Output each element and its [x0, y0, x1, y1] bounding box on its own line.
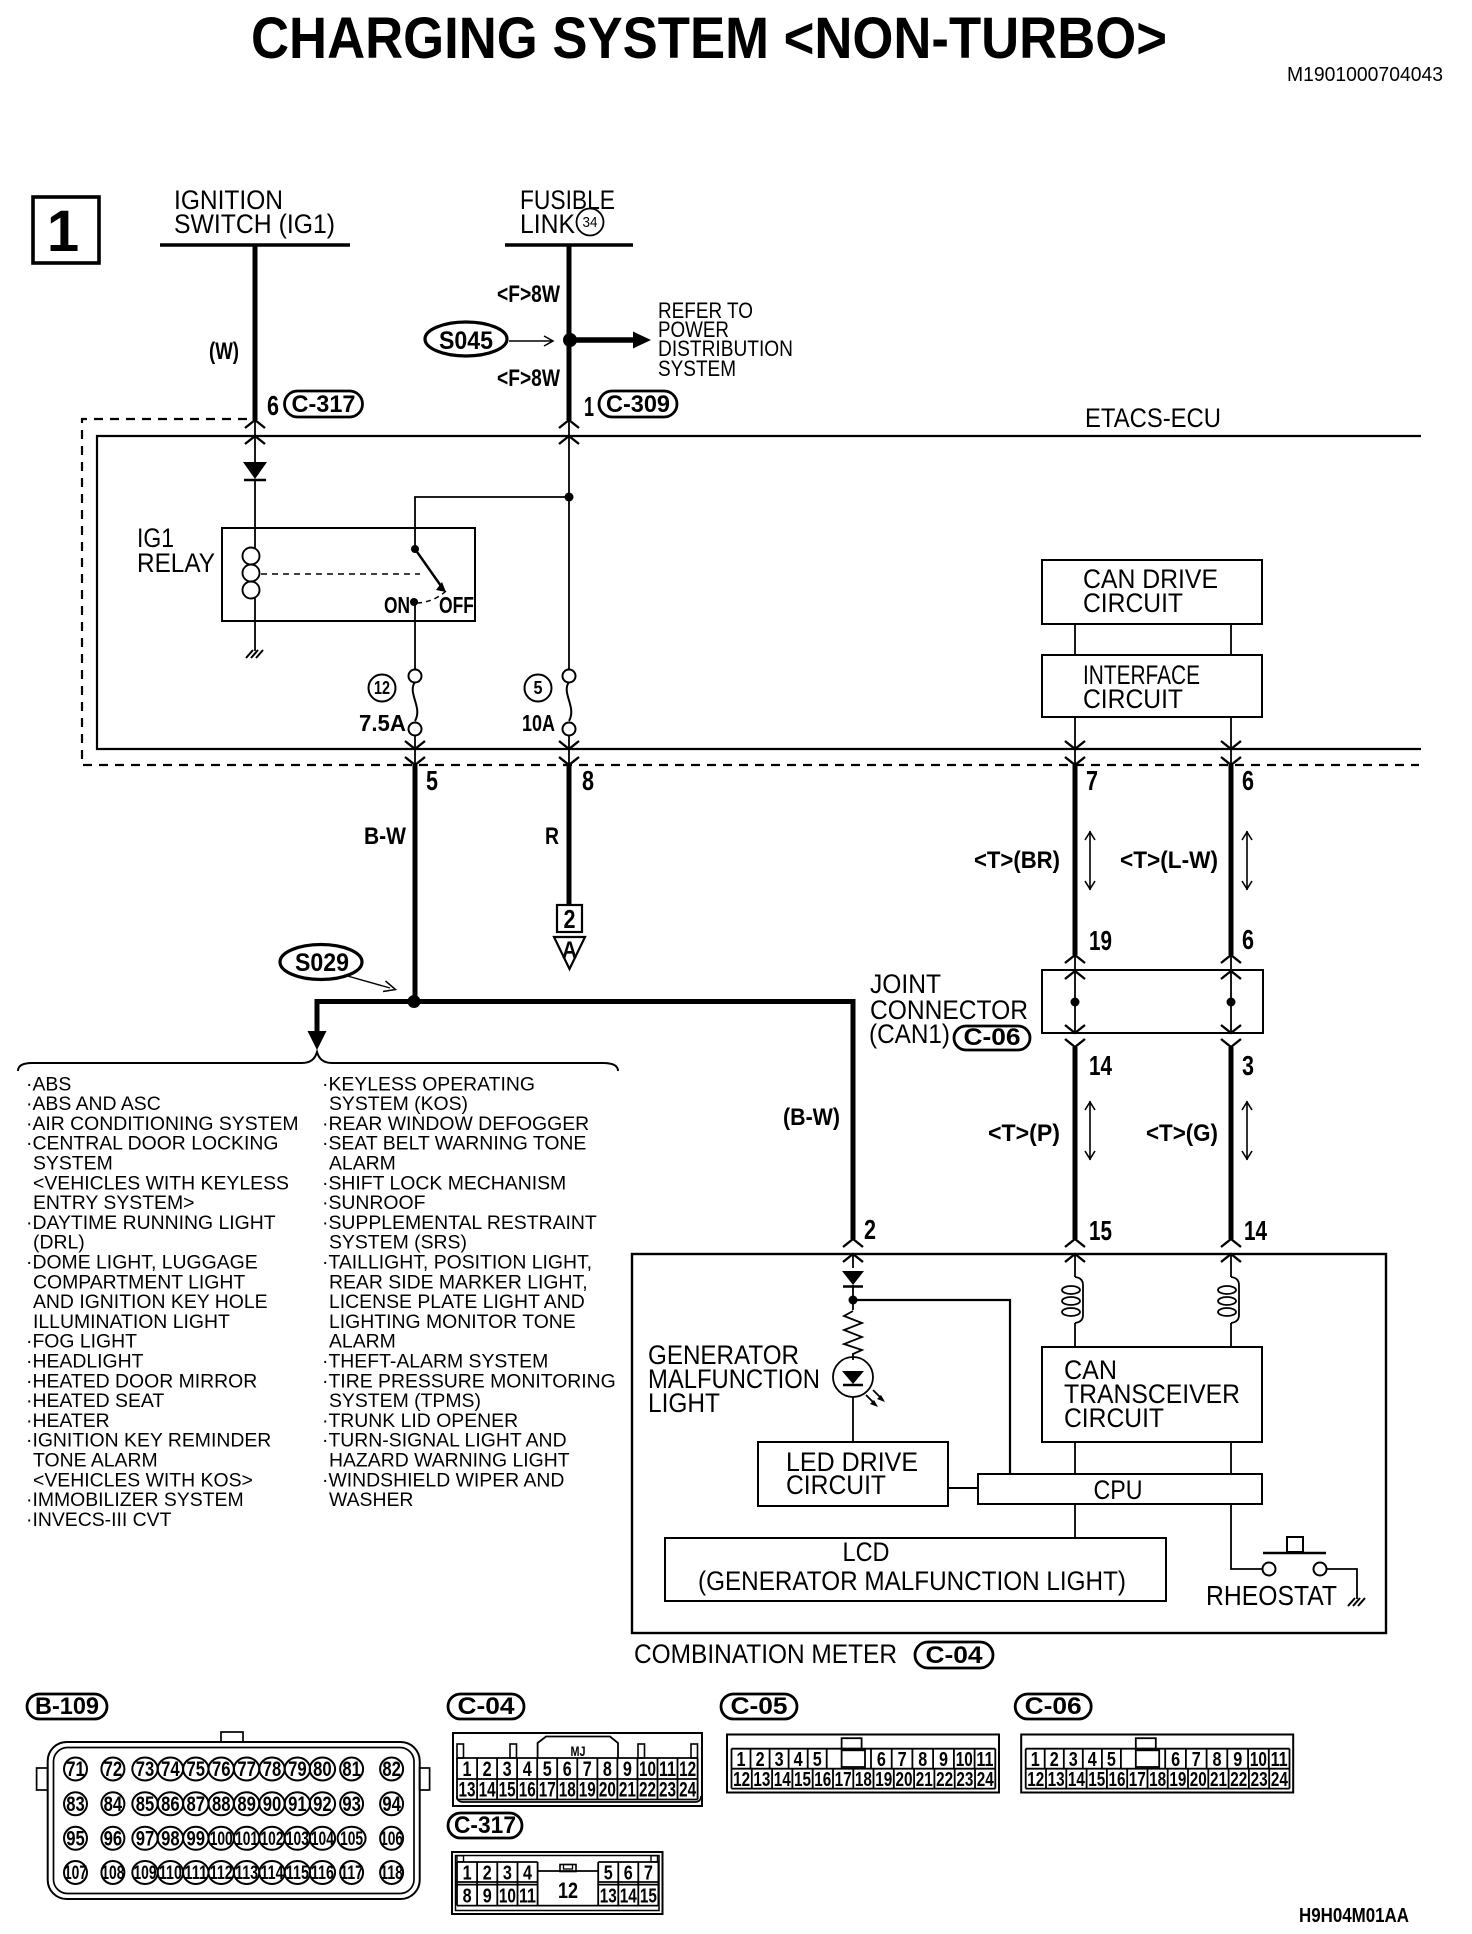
connector pill B-109	[27, 1694, 107, 1719]
relay coil L1	[243, 548, 260, 565]
svg-text:93: 93	[342, 1793, 361, 1816]
connector pill C-04 bottom	[448, 1694, 524, 1719]
svg-text:C-04: C-04	[458, 1693, 516, 1720]
B-109 pin 107	[64, 1861, 87, 1884]
svg-text:113: 113	[235, 1863, 258, 1884]
twisted pair arrow LW	[1242, 831, 1252, 890]
svg-text:92: 92	[313, 1793, 332, 1816]
connector chevrons C-309 pin 1 entry	[559, 420, 579, 428]
junction node S029	[408, 995, 421, 1008]
svg-text:8: 8	[918, 1749, 927, 1771]
wire diode to relay coil	[254, 480, 256, 548]
svg-text:91: 91	[288, 1793, 307, 1816]
B-109 pin 77	[234, 1758, 259, 1781]
splice S029	[280, 945, 362, 980]
IG1 relay box	[222, 528, 475, 621]
svg-text:23: 23	[956, 1769, 973, 1791]
svg-text:15: 15	[499, 1779, 516, 1802]
svg-text:86: 86	[161, 1793, 180, 1816]
B-109 pin 109	[132, 1861, 157, 1884]
svg-text:SYSTEM: SYSTEM	[33, 1153, 113, 1175]
wire T LW pin 6 to joint connector 6	[1229, 765, 1234, 955]
wire through joint connector right	[1230, 955, 1232, 1033]
rheostat switch	[1287, 1537, 1303, 1552]
twisted pair arrow BR	[1085, 831, 1095, 890]
fuse 5 (10A)	[568, 420, 570, 670]
B-109 pin 116	[310, 1861, 335, 1884]
connector pill C-317 bottom	[448, 1813, 522, 1838]
svg-text:ALARM: ALARM	[329, 1153, 396, 1175]
connector pill C-05 bottom	[721, 1694, 797, 1719]
svg-text:80: 80	[313, 1758, 332, 1781]
svg-text:S045: S045	[439, 327, 493, 355]
wire CPU to rheostat	[1231, 1504, 1262, 1569]
svg-text:2: 2	[564, 904, 576, 934]
svg-text:22: 22	[1230, 1769, 1247, 1791]
ground rheostat	[1348, 1598, 1365, 1606]
svg-text:114: 114	[261, 1863, 284, 1884]
svg-text:85: 85	[136, 1793, 155, 1816]
svg-text:(GENERATOR MALFUNCTION LIGHT): (GENERATOR MALFUNCTION LIGHT)	[698, 1566, 1126, 1596]
B-109 pin 105	[338, 1827, 366, 1850]
svg-text:<VEHICLES WITH KEYLESS: <VEHICLES WITH KEYLESS	[33, 1172, 289, 1194]
B-109 pin 117	[340, 1861, 363, 1884]
svg-text:<F>8W: <F>8W	[497, 281, 560, 308]
svg-text:2: 2	[756, 1749, 765, 1771]
svg-text:73: 73	[136, 1758, 155, 1781]
svg-text:17: 17	[539, 1779, 556, 1802]
svg-text:CIRCUIT: CIRCUIT	[1064, 1403, 1164, 1433]
svg-text:18: 18	[559, 1779, 576, 1802]
CAN transceiver circuit box	[1042, 1347, 1262, 1442]
svg-text:·TRUNK LID OPENER: ·TRUNK LID OPENER	[322, 1410, 518, 1432]
B-109 pin 87	[183, 1792, 208, 1815]
svg-text:WASHER: WASHER	[329, 1489, 413, 1511]
svg-text:COMPARTMENT LIGHT: COMPARTMENT LIGHT	[33, 1271, 245, 1293]
svg-text:8: 8	[463, 1886, 472, 1908]
svg-text:·HEADLIGHT: ·HEADLIGHT	[26, 1351, 144, 1373]
svg-text:22: 22	[639, 1779, 656, 1802]
svg-text:COMBINATION METER: COMBINATION METER	[634, 1639, 897, 1669]
arrow to power distribution system	[569, 337, 634, 343]
svg-text:100: 100	[210, 1829, 233, 1850]
brace over system list	[18, 1052, 618, 1071]
svg-text:CIRCUIT: CIRCUIT	[1083, 588, 1183, 618]
svg-text:1: 1	[1031, 1749, 1040, 1771]
svg-text:5: 5	[604, 1863, 613, 1885]
connector pill C-317	[285, 391, 363, 417]
svg-text:HAZARD WARNING LIGHT: HAZARD WARNING LIGHT	[329, 1450, 570, 1472]
svg-text:MJ: MJ	[571, 1743, 586, 1759]
svg-text:CHARGING SYSTEM <NON-TURBO>: CHARGING SYSTEM <NON-TURBO>	[251, 6, 1167, 71]
svg-text:·SUNROOF: ·SUNROOF	[322, 1192, 426, 1214]
B-109 pin 99	[183, 1827, 208, 1850]
chevrons meter pin 15 entry	[1065, 1239, 1085, 1247]
svg-text:11: 11	[976, 1749, 993, 1771]
B-109 pin 92	[310, 1792, 335, 1815]
svg-text:88: 88	[212, 1793, 231, 1816]
svg-text:22: 22	[936, 1769, 953, 1791]
B-109 pin 102	[259, 1827, 284, 1850]
svg-text:6: 6	[624, 1863, 633, 1885]
svg-text:15: 15	[1088, 1769, 1105, 1791]
svg-text:5: 5	[534, 678, 543, 698]
svg-text:TONE ALARM: TONE ALARM	[33, 1450, 158, 1472]
svg-text:CIRCUIT: CIRCUIT	[1083, 684, 1183, 714]
relay switch arm	[415, 549, 441, 586]
connector pill C-06 label	[954, 1026, 1030, 1050]
svg-text:19: 19	[579, 1779, 596, 1802]
svg-text:24: 24	[1271, 1769, 1289, 1791]
svg-text:(W): (W)	[209, 338, 239, 365]
svg-text:107: 107	[64, 1863, 87, 1884]
svg-text:74: 74	[161, 1758, 180, 1781]
B-109 pin 98	[158, 1827, 183, 1850]
svg-text:·ABS AND ASC: ·ABS AND ASC	[26, 1093, 161, 1115]
svg-text:5: 5	[1107, 1749, 1116, 1771]
B-109 pin 83	[64, 1792, 87, 1815]
svg-text:7: 7	[1192, 1749, 1201, 1771]
svg-text:<T>(L-W): <T>(L-W)	[1120, 847, 1218, 874]
svg-text:·HEATED DOOR MIRROR: ·HEATED DOOR MIRROR	[26, 1370, 257, 1392]
wire CAN transceiver to CPU right	[1230, 1442, 1232, 1474]
svg-text:·THEFT-ALARM SYSTEM: ·THEFT-ALARM SYSTEM	[322, 1351, 548, 1373]
svg-text:19: 19	[875, 1769, 892, 1791]
svg-text:H9H04M01AA: H9H04M01AA	[1299, 1905, 1409, 1927]
svg-text:72: 72	[104, 1758, 123, 1781]
svg-text:116: 116	[311, 1863, 334, 1884]
LED generator malfunction light	[833, 1357, 873, 1397]
chevrons meter pin 14 entry	[1221, 1239, 1241, 1247]
svg-text:C-04: C-04	[926, 1642, 984, 1669]
B-109 pin 81	[340, 1758, 363, 1781]
svg-text:C-317: C-317	[292, 391, 356, 418]
connector C-317 body	[452, 1852, 663, 1914]
svg-text:101: 101	[235, 1829, 258, 1850]
svg-text:OFF: OFF	[439, 592, 474, 618]
B-109 pin 76	[209, 1758, 234, 1781]
svg-text:C-06: C-06	[964, 1024, 1021, 1051]
chevrons joint connector pin 19 entry	[1065, 955, 1085, 963]
svg-text:5: 5	[426, 765, 438, 796]
svg-text:·INVECS-III CVT: ·INVECS-III CVT	[26, 1509, 172, 1531]
svg-text:95: 95	[66, 1827, 85, 1850]
circled fuse number 12	[369, 675, 396, 702]
CPU box	[978, 1474, 1262, 1504]
B-109 pin 79	[285, 1758, 310, 1781]
svg-text:105: 105	[340, 1829, 363, 1850]
svg-text:103: 103	[286, 1829, 309, 1850]
wire T BR pin 7 to joint connector 19	[1073, 765, 1078, 955]
wire entry to diode	[254, 420, 256, 462]
svg-text:SYSTEM (KOS): SYSTEM (KOS)	[329, 1093, 468, 1115]
svg-text:S029: S029	[295, 949, 349, 977]
chevrons ETACS pin 7 exit	[1065, 741, 1085, 749]
B-109 pin 101	[234, 1827, 259, 1850]
B-109 pin 90	[259, 1792, 284, 1815]
svg-text:·KEYLESS OPERATING: ·KEYLESS OPERATING	[322, 1073, 535, 1095]
svg-text:SYSTEM: SYSTEM	[658, 356, 736, 381]
B-109 pin 111	[183, 1861, 208, 1884]
svg-text:21: 21	[619, 1779, 636, 1802]
svg-text:17: 17	[835, 1769, 852, 1791]
B-109 pin 91	[285, 1792, 310, 1815]
svg-text:10: 10	[956, 1749, 973, 1771]
svg-text:83: 83	[66, 1793, 85, 1816]
svg-text:23: 23	[1251, 1769, 1268, 1791]
svg-text:79: 79	[288, 1758, 307, 1781]
svg-text:10: 10	[1250, 1749, 1267, 1771]
svg-text:<F>8W: <F>8W	[497, 365, 560, 392]
svg-text:76: 76	[212, 1758, 231, 1781]
chevrons ETACS pin 5 exit	[405, 741, 425, 749]
chevrons ETACS pin 6 exit	[1221, 741, 1241, 749]
svg-text:97: 97	[136, 1827, 155, 1850]
chevrons meter pin 2 entry	[843, 1239, 863, 1247]
svg-text:(B-W): (B-W)	[783, 1104, 840, 1131]
svg-text:<T>(BR): <T>(BR)	[974, 847, 1060, 874]
B-109 pin 73	[132, 1758, 157, 1781]
wire fuse 12 to pin 5	[414, 735, 416, 765]
svg-text:·ABS: ·ABS	[26, 1073, 71, 1095]
wire relay feed from fusible link	[415, 497, 569, 548]
wire fuse 5 to pin 8	[568, 735, 570, 765]
system list column 1	[26, 1073, 299, 1531]
svg-text:·DAYTIME RUNNING LIGHT: ·DAYTIME RUNNING LIGHT	[26, 1212, 276, 1234]
svg-text:REAR SIDE MARKER LIGHT,: REAR SIDE MARKER LIGHT,	[329, 1271, 588, 1293]
wire CPU to LCD	[1074, 1504, 1076, 1538]
joint connector (CAN1) box	[1042, 970, 1263, 1033]
svg-text:3: 3	[1069, 1749, 1078, 1771]
svg-text:8: 8	[1213, 1749, 1222, 1771]
off-page connector box 2	[557, 905, 582, 932]
svg-text:·SHIFT LOCK MECHANISM: ·SHIFT LOCK MECHANISM	[322, 1172, 566, 1194]
connector pill C-309	[599, 391, 677, 417]
svg-text:RELAY: RELAY	[137, 548, 215, 578]
wire T P joint to meter 15	[1073, 1047, 1078, 1239]
B-109 pin 103	[285, 1827, 310, 1850]
B-109 pin 110	[158, 1861, 183, 1884]
svg-text:110: 110	[159, 1863, 182, 1884]
wire CAN transceiver to CPU left	[1074, 1442, 1076, 1474]
B-109 pin 97	[132, 1827, 157, 1850]
svg-text:SWITCH (IG1): SWITCH (IG1)	[174, 209, 335, 239]
arrow S029 to junction	[344, 975, 390, 988]
svg-text:6: 6	[877, 1749, 886, 1771]
svg-text:·SUPPLEMENTAL RESTRAINT: ·SUPPLEMENTAL RESTRAINT	[322, 1212, 597, 1234]
wire S029 horizontal run	[317, 999, 853, 1004]
svg-text:14: 14	[479, 1779, 496, 1802]
connector pill C-04 label	[915, 1642, 993, 1668]
junction node on fusible wire	[565, 493, 574, 502]
svg-text:3: 3	[1242, 1050, 1254, 1081]
arrow S045 to junction	[509, 340, 552, 342]
svg-text:7: 7	[898, 1749, 907, 1771]
connector chevrons C-317 pin 6 entry	[245, 420, 265, 428]
svg-text:11: 11	[519, 1886, 536, 1908]
chevrons ETACS pin 8 exit	[559, 741, 579, 749]
svg-text:B-W: B-W	[364, 823, 406, 850]
svg-text:4: 4	[1088, 1749, 1098, 1771]
svg-text:1: 1	[463, 1863, 472, 1885]
svg-text:6: 6	[1171, 1749, 1180, 1771]
svg-text:94: 94	[382, 1793, 401, 1816]
wire fusible link to C-309 pin 1	[567, 245, 572, 420]
svg-text:71: 71	[66, 1758, 85, 1781]
svg-text:77: 77	[237, 1758, 256, 1781]
svg-text:6: 6	[1242, 765, 1254, 796]
wire B-W pin 5 to S029	[413, 765, 418, 1003]
off-page triangle A	[554, 937, 585, 969]
B-109 pin 74	[158, 1758, 183, 1781]
svg-text:16: 16	[519, 1779, 536, 1802]
svg-text:82: 82	[382, 1758, 401, 1781]
svg-text:112: 112	[210, 1863, 233, 1884]
svg-text:7: 7	[644, 1863, 653, 1885]
svg-text:34: 34	[583, 214, 598, 231]
svg-text:20: 20	[896, 1769, 913, 1791]
B-109 pin 80	[310, 1758, 335, 1781]
B-109 pin 85	[132, 1792, 157, 1815]
B-109 pin 84	[101, 1792, 124, 1815]
svg-text:LIGHT: LIGHT	[648, 1388, 720, 1418]
dashed arc arm travel	[417, 591, 446, 603]
svg-text:16: 16	[1109, 1769, 1126, 1791]
svg-text:7.5A: 7.5A	[359, 710, 406, 736]
wire (B-W) down to combination meter pin 2	[851, 999, 856, 1239]
svg-text:SYSTEM (TPMS): SYSTEM (TPMS)	[329, 1390, 481, 1412]
svg-text:3: 3	[503, 1863, 512, 1885]
svg-text:15: 15	[794, 1769, 811, 1791]
wire meter pin 2 internal	[852, 1254, 854, 1268]
svg-text:18: 18	[1149, 1769, 1166, 1791]
svg-text:15: 15	[1089, 1215, 1112, 1246]
coil meter pin 15	[1074, 1254, 1076, 1277]
svg-text:·WINDSHIELD WIPER AND: ·WINDSHIELD WIPER AND	[322, 1469, 564, 1491]
svg-text:8: 8	[582, 765, 594, 796]
svg-text:96: 96	[104, 1827, 123, 1850]
B-109 pin 115	[285, 1861, 310, 1884]
connector B-109 body	[48, 1742, 420, 1899]
svg-text:SYSTEM (SRS): SYSTEM (SRS)	[329, 1232, 467, 1254]
B-109 pin 112	[209, 1861, 234, 1884]
svg-text:87: 87	[187, 1793, 206, 1816]
svg-text:24: 24	[977, 1769, 995, 1791]
svg-text:LICENSE PLATE LIGHT AND: LICENSE PLATE LIGHT AND	[329, 1291, 585, 1313]
svg-text:12: 12	[374, 678, 390, 698]
svg-text:·AIR CONDITIONING SYSTEM: ·AIR CONDITIONING SYSTEM	[26, 1113, 299, 1135]
svg-text:B-109: B-109	[35, 1693, 99, 1720]
B-109 pin 96	[101, 1827, 124, 1850]
connector C-06 body	[1021, 1735, 1293, 1793]
ETACS-ECU solid box	[97, 436, 1421, 749]
svg-text:C-05: C-05	[731, 1693, 788, 1720]
svg-text:AND IGNITION KEY HOLE: AND IGNITION KEY HOLE	[33, 1291, 268, 1313]
svg-text:14: 14	[1244, 1215, 1267, 1246]
interface circuit box	[1042, 655, 1262, 717]
svg-text:5: 5	[813, 1749, 822, 1771]
ground below relay coil	[246, 650, 263, 658]
wire diode to junction	[852, 1285, 854, 1310]
resistor R1	[844, 1311, 862, 1354]
svg-text:LINK: LINK	[520, 209, 575, 239]
svg-text:10A: 10A	[522, 710, 555, 736]
svg-text:·DOME LIGHT, LUGGAGE: ·DOME LIGHT, LUGGAGE	[26, 1252, 258, 1274]
svg-text:·IMMOBILIZER SYSTEM: ·IMMOBILIZER SYSTEM	[26, 1489, 244, 1511]
svg-text:18: 18	[855, 1769, 872, 1791]
wire LED drive to CPU	[948, 1487, 978, 1489]
svg-text:104: 104	[311, 1829, 334, 1850]
svg-text:20: 20	[599, 1779, 616, 1802]
B-109 pin 106	[380, 1827, 403, 1850]
svg-text:109: 109	[134, 1863, 157, 1884]
svg-text:17: 17	[1129, 1769, 1146, 1791]
svg-text:9: 9	[939, 1749, 948, 1771]
svg-text:6: 6	[267, 390, 279, 421]
junction node S045	[563, 333, 577, 347]
svg-text:12: 12	[558, 1878, 578, 1903]
svg-text:19: 19	[1169, 1769, 1186, 1791]
svg-text:·TURN-SIGNAL LIGHT AND: ·TURN-SIGNAL LIGHT AND	[322, 1430, 567, 1452]
svg-text:90: 90	[263, 1793, 282, 1816]
svg-text:ON: ON	[384, 592, 410, 618]
svg-text:21: 21	[916, 1769, 933, 1791]
svg-text:108: 108	[101, 1863, 124, 1884]
svg-text:118: 118	[380, 1863, 403, 1884]
B-109 pin 86	[158, 1792, 183, 1815]
svg-text:CPU: CPU	[1094, 1475, 1143, 1505]
diode D1	[243, 462, 267, 479]
connector C-05 body	[727, 1735, 999, 1793]
wire R pin 8 to off-page 2A	[567, 765, 572, 905]
svg-text:115: 115	[286, 1863, 309, 1884]
svg-text:·TAILLIGHT, POSITION LIGHT,: ·TAILLIGHT, POSITION LIGHT,	[322, 1252, 592, 1274]
fuse 12 (7.5A)	[409, 670, 422, 683]
wire T G joint to meter 14	[1229, 1047, 1234, 1239]
svg-text:10: 10	[499, 1886, 516, 1908]
svg-text:C-06: C-06	[1025, 1693, 1082, 1720]
wire coil to ground	[254, 598, 256, 651]
B-109 pin 113	[234, 1861, 259, 1884]
svg-text:LIGHTING MONITOR TONE: LIGHTING MONITOR TONE	[329, 1311, 576, 1333]
svg-text:(CAN1): (CAN1)	[869, 1019, 950, 1049]
B-109 pin 118	[380, 1861, 403, 1884]
svg-text:·CENTRAL DOOR LOCKING: ·CENTRAL DOOR LOCKING	[26, 1133, 278, 1155]
svg-text:102: 102	[261, 1829, 284, 1850]
svg-text:7: 7	[1086, 765, 1098, 796]
svg-text:·REAR WINDOW DEFOGGER: ·REAR WINDOW DEFOGGER	[322, 1113, 589, 1135]
svg-text:4: 4	[523, 1863, 533, 1885]
svg-text:·TIRE PRESSURE MONITORING: ·TIRE PRESSURE MONITORING	[322, 1370, 616, 1392]
svg-text:14: 14	[1068, 1769, 1086, 1791]
svg-text:75: 75	[187, 1758, 206, 1781]
svg-text:99: 99	[187, 1827, 206, 1850]
fusible link bus bar	[505, 243, 633, 247]
svg-text:23: 23	[659, 1779, 676, 1802]
connector C-04 body	[453, 1733, 702, 1806]
svg-text:1: 1	[584, 391, 594, 422]
svg-text:9: 9	[483, 1886, 492, 1908]
svg-text:·IGNITION KEY REMINDER: ·IGNITION KEY REMINDER	[26, 1430, 271, 1452]
B-109 pin 71	[64, 1758, 87, 1781]
svg-text:CIRCUIT: CIRCUIT	[786, 1470, 886, 1500]
svg-text:117: 117	[340, 1863, 363, 1884]
dashed mechanical link	[261, 573, 420, 575]
B-109 pin 114	[259, 1861, 284, 1884]
svg-text:89: 89	[237, 1793, 256, 1816]
svg-text:9: 9	[1233, 1749, 1242, 1771]
B-109 pin 72	[101, 1758, 124, 1781]
